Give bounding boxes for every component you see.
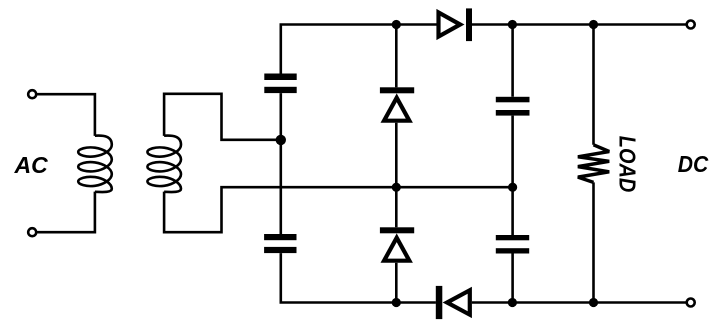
svg-text:AC: AC <box>14 152 49 178</box>
svg-text:LOAD: LOAD <box>615 136 641 193</box>
svg-text:DC: DC <box>678 151 709 177</box>
